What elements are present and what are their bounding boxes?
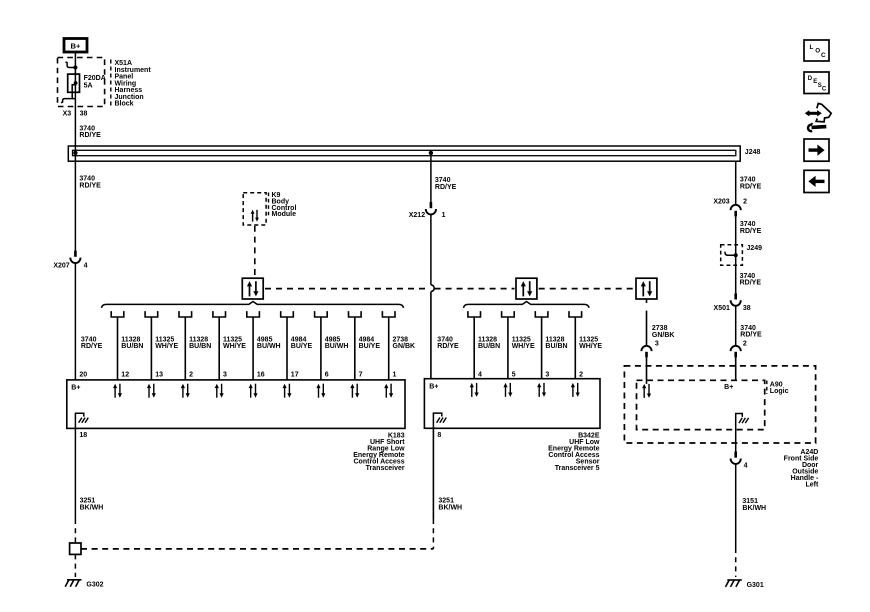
splice block <box>70 543 81 554</box>
svg-text:8: 8 <box>437 432 441 439</box>
toolbar connector-view icon <box>805 103 831 131</box>
svg-text:G302: G302 <box>86 582 103 589</box>
svg-text:Transceiver: Transceiver <box>366 465 405 472</box>
A90 internal ground <box>736 414 749 452</box>
module K9 Body Control Module dashed box <box>243 193 266 225</box>
wire K183 pin 18 to splice <box>75 428 103 519</box>
svg-text:3: 3 <box>545 371 549 378</box>
svg-text:RD/YE: RD/YE <box>435 184 457 191</box>
svg-text:RD/YE: RD/YE <box>79 182 101 189</box>
wire 4985 BU/WH pin 6 (K183) <box>315 311 349 380</box>
toolbar LOC button <box>804 40 829 61</box>
svg-text:WH/YE: WH/YE <box>223 343 246 350</box>
ground G301 <box>726 580 764 589</box>
svg-text:RD/YE: RD/YE <box>437 343 459 350</box>
splice J249 <box>721 245 743 266</box>
junction block X51A dashed box <box>58 58 105 107</box>
svg-text:RD/YE: RD/YE <box>740 228 762 235</box>
wire 4984 BU/YE pin 17 (K183) <box>281 311 313 380</box>
dashed rail segment 3 <box>539 288 635 290</box>
svg-text:16: 16 <box>257 371 265 378</box>
svg-text:B+: B+ <box>71 42 81 51</box>
svg-text:D: D <box>808 76 813 82</box>
dashed lead pin8 to ground rail <box>432 519 434 549</box>
connector X501 pin 38 <box>714 293 751 312</box>
wire 3740 RD/YE label (middle) <box>435 177 457 191</box>
svg-text:B+: B+ <box>71 384 80 391</box>
B342E internal arrows ch1 <box>470 383 479 397</box>
wire bus to X212 <box>430 156 432 202</box>
svg-text:Module: Module <box>272 211 297 218</box>
svg-text:BK/WH: BK/WH <box>80 504 104 511</box>
K9 module name <box>272 192 297 218</box>
svg-text:BU/BN: BU/BN <box>121 343 143 350</box>
svg-text:BK/WH: BK/WH <box>742 505 766 512</box>
wire hop at X212 feed <box>431 285 434 292</box>
svg-text:C: C <box>821 52 826 59</box>
svg-text:17: 17 <box>291 371 299 378</box>
junction node on bus (left) <box>73 151 77 155</box>
svg-text:Block: Block <box>115 101 134 108</box>
bus bar J248 <box>68 146 740 161</box>
B342E internal arrows ch2 <box>503 383 512 397</box>
svg-text:RD/YE: RD/YE <box>740 332 762 339</box>
wire 4984 BU/YE pin 7 (K183) <box>349 311 381 380</box>
dashed rail segment 1 <box>265 288 427 290</box>
K183 module name <box>353 432 405 472</box>
ground G302 <box>65 580 103 589</box>
wire 3740 RD/YE label (K183 B+ feed) <box>81 336 103 350</box>
svg-text:BU/WH: BU/WH <box>257 343 281 350</box>
antenna interface node 2 <box>516 278 537 299</box>
svg-text:GN/BK: GN/BK <box>393 343 416 350</box>
wire 11325 WH/YE pin 5 (B342E) <box>502 311 535 379</box>
dashed link K9 to antenna node <box>254 226 256 278</box>
svg-text:X207: X207 <box>53 263 69 270</box>
svg-text:6: 6 <box>325 371 329 378</box>
connector X207 pin 4 <box>53 251 87 270</box>
connector X212 pin 1 <box>409 202 446 219</box>
wire 11325 WH/YE pin 3 (K183) <box>213 311 246 380</box>
pin 20 label <box>79 371 87 378</box>
svg-text:BU/BN: BU/BN <box>545 343 567 350</box>
K183 internal arrows ch1 <box>113 384 122 398</box>
svg-text:C: C <box>822 87 827 93</box>
J249 label <box>747 245 763 252</box>
wire 11328 BU/BN pin 4 (B342E) <box>468 311 500 379</box>
svg-text:5A: 5A <box>84 82 93 89</box>
svg-text:Left: Left <box>805 481 819 488</box>
svg-text:BU/YE: BU/YE <box>359 343 381 350</box>
connector X203 pin 2 <box>713 198 747 216</box>
connector X3 pin 38 <box>63 111 88 118</box>
wire 11328 BU/BN pin 3 (B342E) <box>535 311 567 379</box>
wire 3740 RD/YE label (right 3) <box>740 273 762 287</box>
svg-text:BK/WH: BK/WH <box>438 504 462 511</box>
svg-text:F20DA: F20DA <box>84 75 106 82</box>
wire to K183 pin 20 <box>74 263 76 380</box>
wire bus to X203 <box>735 161 737 205</box>
label separator X51A <box>110 60 112 106</box>
toolbar back button <box>804 170 829 192</box>
svg-text:WH/YE: WH/YE <box>579 343 602 350</box>
K183 internal ground <box>75 413 88 428</box>
svg-text:Transceiver 5: Transceiver 5 <box>555 465 600 472</box>
wire pin3 into A90 <box>646 358 648 384</box>
svg-text:5: 5 <box>512 371 516 378</box>
module B342E box <box>424 379 600 429</box>
svg-text:WH/YE: WH/YE <box>155 343 178 350</box>
module A90 Logic dashed box <box>637 380 765 429</box>
K9 label separator <box>268 193 270 218</box>
A90 B+ terminal label <box>724 384 733 391</box>
svg-text:4: 4 <box>84 263 88 270</box>
svg-text:1: 1 <box>442 212 446 219</box>
terminal clip lower <box>61 92 75 103</box>
pin 2 connector at A90 <box>731 341 747 358</box>
A90 label separator <box>766 381 768 395</box>
svg-text:7: 7 <box>359 371 363 378</box>
svg-text:4: 4 <box>744 462 748 469</box>
svg-text:20: 20 <box>79 371 87 378</box>
svg-text:3: 3 <box>223 371 227 378</box>
svg-text:2: 2 <box>743 199 747 206</box>
svg-text:X212: X212 <box>409 212 425 219</box>
B342E internal arrows ch4 <box>571 383 580 397</box>
svg-text:RD/YE: RD/YE <box>740 280 762 287</box>
svg-text:Logic: Logic <box>770 388 789 395</box>
K183 internal arrows ch9 <box>384 384 393 398</box>
wire 3740 RD/YE label (right 2) <box>740 221 762 235</box>
A90 internal arrows <box>642 384 651 398</box>
wire 2738 GN/BK label <box>652 325 675 339</box>
antenna interface node 1 <box>242 278 263 299</box>
pin 3 connector <box>641 341 659 358</box>
A24D component name <box>784 449 819 489</box>
svg-text:BU/BN: BU/BN <box>478 343 500 350</box>
junction node on bus (middle) <box>429 151 433 155</box>
wire B342E pin 8 down <box>433 428 462 519</box>
wire J249 to X501 <box>735 265 737 293</box>
fuse F20DA 5A <box>68 74 80 92</box>
K183 internal arrows ch2 <box>147 384 156 398</box>
dashed lead to G301 <box>735 548 737 577</box>
svg-text:1: 1 <box>393 371 397 378</box>
fuse value label F20DA 5A <box>84 75 106 89</box>
svg-text:J248: J248 <box>745 149 761 156</box>
svg-text:18: 18 <box>79 432 87 439</box>
K9 serial data arrows <box>251 210 259 222</box>
X51A junction block name <box>115 60 152 108</box>
svg-text:BU/BN: BU/BN <box>189 343 211 350</box>
wire node3 to pin 3 <box>646 299 648 346</box>
svg-text:O: O <box>815 47 820 54</box>
K183 internal arrows ch5 <box>249 384 258 398</box>
wire 11325 WH/YE pin 13 (K183) <box>145 311 178 380</box>
pin 4 connector <box>731 452 748 470</box>
battery B+ symbol <box>64 39 87 53</box>
pin 8 label <box>437 432 441 439</box>
dashed lead to splice block <box>74 519 76 543</box>
harness brace (B342E) <box>464 302 590 308</box>
toolbar DESC button <box>804 72 829 94</box>
svg-text:2: 2 <box>579 371 583 378</box>
dashed rail segment 2 <box>435 288 515 290</box>
wire from B+ through fuse <box>74 52 76 251</box>
wire 3740 RD/YE label (B342E B+ feed) <box>437 336 459 350</box>
svg-text:RD/YE: RD/YE <box>79 132 101 139</box>
wire 3740 RD/YE label (right 1) <box>740 177 762 191</box>
wire X203 to J249 <box>735 217 737 245</box>
svg-text:3: 3 <box>655 341 659 348</box>
svg-text:G301: G301 <box>747 582 764 589</box>
svg-text:RD/YE: RD/YE <box>740 183 762 190</box>
B342E internal arrows ch3 <box>537 383 546 397</box>
svg-text:GN/BK: GN/BK <box>652 332 675 339</box>
svg-text:L: L <box>810 44 814 51</box>
K183 internal arrows ch4 <box>215 384 224 398</box>
svg-text:RD/YE: RD/YE <box>81 343 103 350</box>
svg-text:X501: X501 <box>714 305 730 312</box>
wire 2738 GN/BK pin 1 (K183) <box>382 311 415 380</box>
dashed lead to G302 <box>74 554 76 577</box>
svg-text:12: 12 <box>121 371 129 378</box>
wire 4985 BU/WH pin 16 (K183) <box>247 311 281 380</box>
pin 18 label <box>79 432 87 439</box>
wire 3151 BK/WH <box>736 464 766 548</box>
K183 internal arrows ch6 <box>283 384 292 398</box>
svg-text:B+: B+ <box>724 384 733 391</box>
harness brace (K183) <box>102 302 404 308</box>
svg-text:WH/YE: WH/YE <box>512 343 535 350</box>
A90 module name <box>770 381 789 395</box>
wire 11328 BU/BN pin 12 (K183) <box>111 311 143 380</box>
svg-text:4: 4 <box>478 371 482 378</box>
svg-text:J249: J249 <box>747 245 763 252</box>
antenna interface node 3 <box>636 278 657 299</box>
wire 3740 RD/YE label (below bus, left) <box>79 176 101 190</box>
K183 internal arrows ch3 <box>181 384 190 398</box>
wire 11325 WH/YE pin 2 (B342E) <box>569 311 602 379</box>
component A24D dashed box <box>624 366 815 443</box>
svg-text:2: 2 <box>743 341 747 348</box>
svg-text:X203: X203 <box>713 198 729 205</box>
svg-text:38: 38 <box>80 111 88 118</box>
K183 internal arrows ch8 <box>350 384 359 398</box>
module K183 box <box>67 380 405 429</box>
toolbar next button <box>804 139 829 161</box>
wire 3740 RD/YE label (right 4) <box>740 325 762 339</box>
wire 3740 RD/YE label (above bus) <box>79 125 101 139</box>
svg-text:BU/YE: BU/YE <box>291 343 313 350</box>
svg-text:38: 38 <box>743 305 751 312</box>
wire pin2 to A90 B+ <box>735 358 737 381</box>
bus label J248 <box>745 149 761 156</box>
svg-text:2: 2 <box>189 371 193 378</box>
wire X501 to A90 pin 2 <box>735 306 737 346</box>
K183 internal arrows ch7 <box>316 384 325 398</box>
terminal clip upper <box>66 62 78 70</box>
svg-text:B+: B+ <box>429 383 438 390</box>
B342E module name <box>548 432 600 472</box>
wire 11328 BU/BN pin 2 (K183) <box>179 311 211 380</box>
svg-text:X3: X3 <box>63 111 72 118</box>
svg-text:13: 13 <box>155 371 163 378</box>
B342E internal ground <box>433 413 446 428</box>
dashed ground rail <box>81 548 433 550</box>
wire X212 to B342E <box>430 214 432 378</box>
svg-text:BU/WH: BU/WH <box>325 343 349 350</box>
